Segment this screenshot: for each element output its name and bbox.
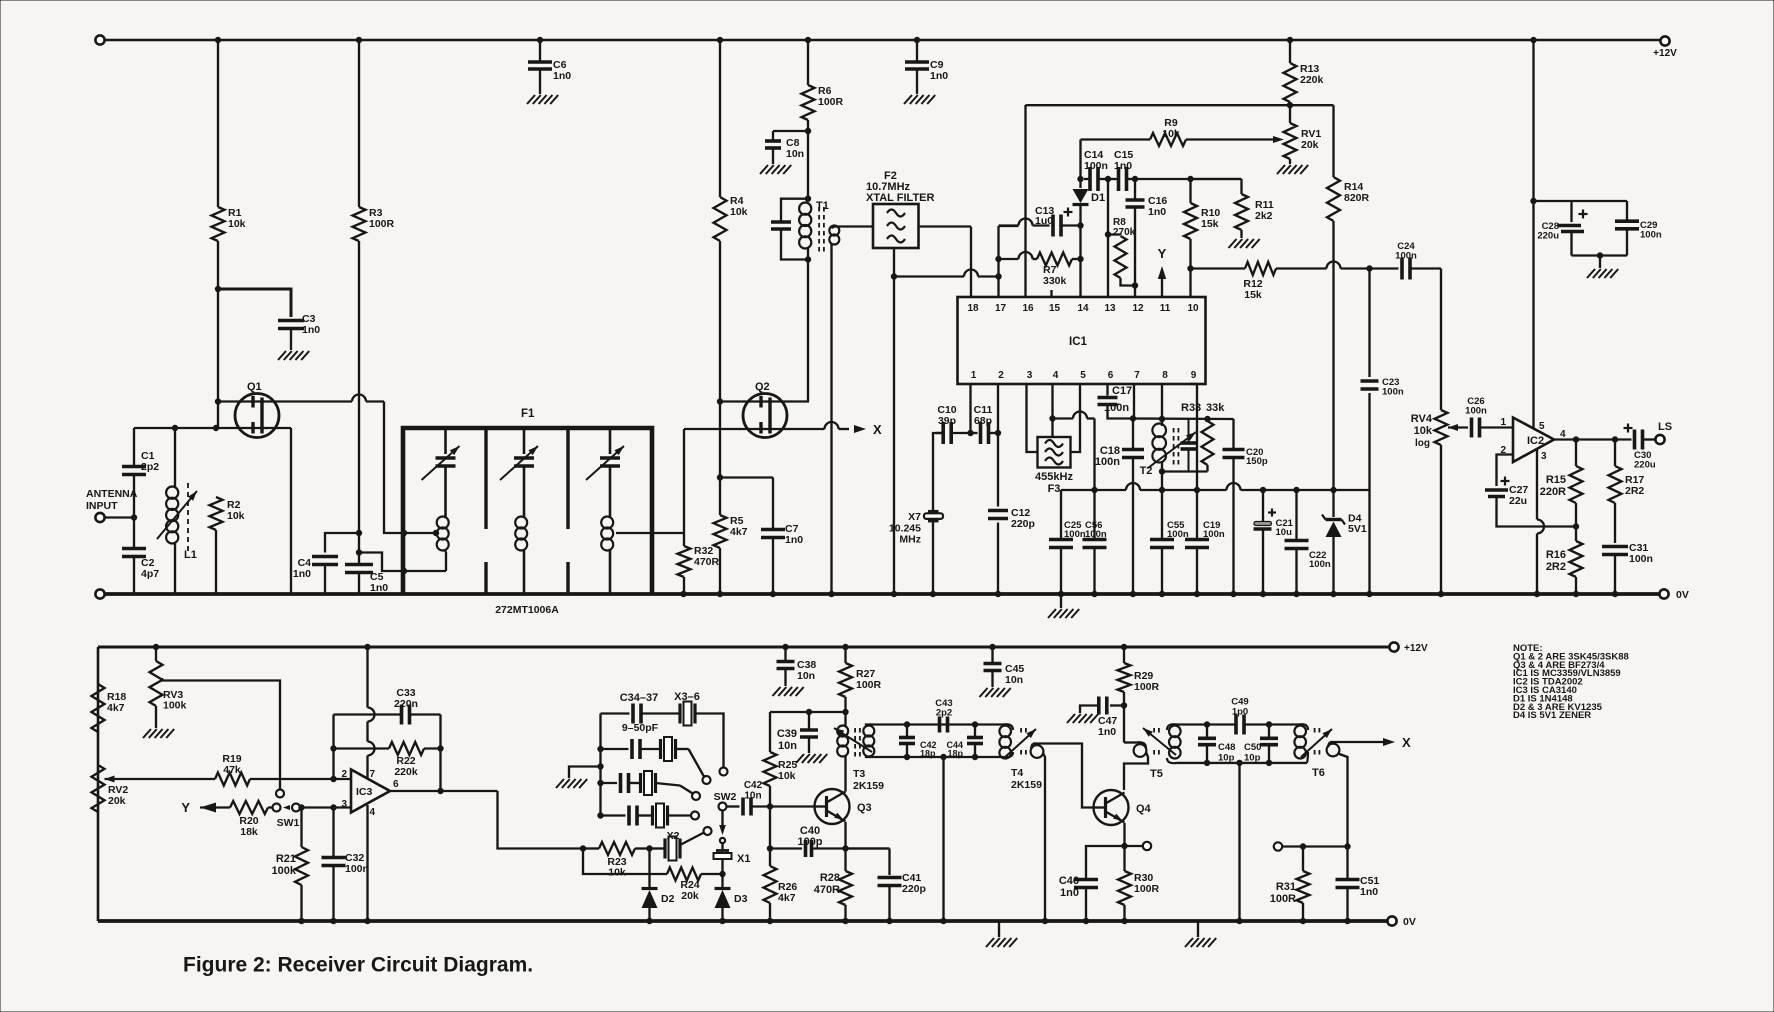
svg-text:100n: 100n <box>1640 230 1662 241</box>
potentiometer RV3 <box>155 647 157 661</box>
ground C45 <box>980 688 988 697</box>
transistor Q4 <box>1094 790 1129 825</box>
ground C38 <box>773 687 781 696</box>
svg-text:330k: 330k <box>1043 275 1067 287</box>
svg-text:0V: 0V <box>1676 589 1689 601</box>
tank capacitor C44 <box>972 721 978 727</box>
arrow L1 adjust <box>157 491 197 539</box>
resistor R11 <box>1191 178 1242 180</box>
svg-text:5V1: 5V1 <box>1348 523 1367 535</box>
wire IC2 output <box>1554 438 1632 440</box>
node D3 top <box>719 871 725 877</box>
wire F2-gnd to pin17 <box>894 275 964 277</box>
transformer T1 <box>805 196 811 202</box>
contact SW2 row1 <box>720 768 728 776</box>
svg-text:LS: LS <box>1658 421 1672 433</box>
svg-text:455kHz: 455kHz <box>1035 471 1073 483</box>
capacitor C12 <box>997 433 999 507</box>
transformer T3 primary <box>844 712 846 726</box>
partition F1 b <box>566 428 569 529</box>
svg-text:15: 15 <box>1049 303 1061 314</box>
svg-text:INPUT: INPUT <box>86 500 118 512</box>
resistor R14 <box>1332 105 1334 177</box>
wire T3 sec bottom <box>866 756 1003 757</box>
ground C6 <box>527 95 535 104</box>
svg-text:C50: C50 <box>1244 742 1261 753</box>
capacitor C33 <box>334 713 402 715</box>
wire pin16 vertical <box>1024 105 1026 297</box>
svg-text:100R: 100R <box>818 96 844 108</box>
crystal X7 <box>928 510 939 513</box>
svg-text:IC2: IC2 <box>1527 435 1544 447</box>
wire C28 C29 top <box>1534 200 1628 202</box>
wire coil return <box>359 553 446 572</box>
resistor R3 <box>358 40 360 207</box>
wire IC3 pin4 down <box>366 805 368 921</box>
svg-text:18k: 18k <box>240 826 258 838</box>
wire Q3 collector <box>844 756 846 792</box>
wire Q1 drain <box>218 400 352 402</box>
svg-text:10p: 10p <box>1218 753 1235 764</box>
svg-text:10n: 10n <box>1005 674 1023 686</box>
node R23 left <box>580 845 586 851</box>
wire T5 tank bottom <box>1177 762 1307 764</box>
wire F2 ground <box>893 248 895 594</box>
svg-text:100k: 100k <box>163 700 187 712</box>
svg-text:100n: 100n <box>1395 251 1417 262</box>
arrow T6 adjust <box>1301 729 1332 757</box>
svg-text:100n: 100n <box>1382 387 1404 398</box>
svg-text:Q1: Q1 <box>247 381 262 393</box>
svg-text:R16: R16 <box>1546 549 1566 561</box>
arrow RV4 wiper <box>1448 424 1458 431</box>
svg-text:R15: R15 <box>1546 474 1566 486</box>
resistor R32 <box>652 532 684 534</box>
wire C15 node line <box>1135 178 1242 180</box>
capacitor C23 <box>1368 269 1370 378</box>
wire pin1 vertical <box>969 384 971 433</box>
svg-text:1n0: 1n0 <box>370 582 388 594</box>
svg-text:T1: T1 <box>816 200 829 212</box>
potentiometer RV2 <box>92 765 105 812</box>
transistor Q1 <box>235 394 279 438</box>
svg-text:T5: T5 <box>1150 768 1163 780</box>
svg-text:272MT1006A: 272MT1006A <box>495 604 559 616</box>
core L1 dashed <box>187 483 189 551</box>
core T3 dashed <box>854 728 856 757</box>
svg-text:10n: 10n <box>744 791 761 802</box>
svg-text:SW2: SW2 <box>714 791 737 803</box>
svg-text:150p: 150p <box>1246 456 1268 467</box>
tick pin15 <box>1050 290 1052 297</box>
svg-text:C46: C46 <box>1059 875 1079 887</box>
svg-text:270k: 270k <box>1113 227 1136 238</box>
svg-text:100k: 100k <box>272 865 297 877</box>
wire IC3 pin3 input <box>300 806 352 808</box>
capacitor C45 <box>989 644 995 650</box>
wire feedback left <box>332 715 334 780</box>
node R5 C7 <box>717 474 723 480</box>
core T2 dashed <box>1173 428 1175 465</box>
ground 0V rail lower a <box>998 921 1000 937</box>
capacitor C38 <box>782 644 788 650</box>
contact SW1 a <box>273 804 281 812</box>
ground RV3 <box>143 729 151 738</box>
svg-text:2: 2 <box>341 769 347 780</box>
transformer T2 <box>1152 424 1166 438</box>
svg-text:2: 2 <box>998 370 1004 381</box>
svg-text:220k: 220k <box>394 766 418 778</box>
core T1 dashed <box>818 207 820 252</box>
resistor R13 <box>1289 40 1291 63</box>
resistor R12 <box>1191 267 1246 269</box>
svg-text:RV4: RV4 <box>1411 413 1433 425</box>
wire C41 branch <box>846 847 890 849</box>
resistor R5 <box>719 478 721 516</box>
partition F1 a <box>484 428 487 529</box>
wire 5V node line <box>1061 489 1126 491</box>
bank row 3 capacitor C36 <box>597 780 603 786</box>
wire T4 sec tail to 0V <box>1043 753 1045 921</box>
wire crystal bank bus <box>599 714 601 816</box>
resistor R28 <box>844 849 846 872</box>
svg-text:Y: Y <box>181 800 190 815</box>
svg-text:10k: 10k <box>608 867 626 879</box>
wire IC2 pin5 supply <box>1532 40 1534 429</box>
svg-text:4: 4 <box>370 807 376 818</box>
wire pin17 vertical <box>997 226 999 297</box>
svg-text:C42: C42 <box>744 780 763 791</box>
wire pin13 vertical <box>1107 179 1109 297</box>
capacitor C4 <box>312 555 338 559</box>
svg-text:6: 6 <box>393 779 399 790</box>
svg-text:10k: 10k <box>227 510 245 522</box>
resistor R10 <box>1189 179 1191 203</box>
svg-text:MHz: MHz <box>899 534 921 546</box>
resistor R30 <box>1123 846 1125 871</box>
resistor R15 <box>1575 440 1577 467</box>
ground C8 <box>760 165 768 174</box>
svg-text:100R: 100R <box>1270 893 1296 905</box>
svg-text:C48: C48 <box>1218 742 1235 753</box>
svg-text:4p7: 4p7 <box>141 568 159 580</box>
inductor L1 <box>174 428 176 487</box>
core T5 dashed <box>1153 728 1155 735</box>
terminal +12V <box>1660 36 1669 45</box>
svg-text:220R: 220R <box>1540 486 1566 498</box>
capacitor C16 <box>1134 179 1136 200</box>
capacitor C32 <box>332 808 334 857</box>
wire R31 node <box>1282 845 1348 847</box>
transformer T4 secondary <box>1031 745 1044 758</box>
capacitor C10 <box>936 432 944 434</box>
ground RV1 <box>1277 165 1285 174</box>
antenna input terminal <box>95 513 104 522</box>
resistor R4 <box>719 40 721 197</box>
svg-text:5: 5 <box>1080 370 1086 381</box>
wire IC3 pin2 input <box>334 778 352 780</box>
svg-text:T4: T4 <box>1011 767 1023 779</box>
transistor Q3 <box>815 789 850 824</box>
capacitor C7 <box>720 476 773 478</box>
wire R25 top to R27 <box>770 711 846 713</box>
capacitor C15 <box>1105 178 1119 180</box>
wire Q3 emitter <box>844 822 846 849</box>
ground R11 <box>1229 239 1237 248</box>
svg-text:1: 1 <box>1500 417 1506 428</box>
bank row 3 crystal X5 <box>639 773 642 793</box>
svg-text:F3: F3 <box>1048 483 1061 495</box>
bank row 2 capacitor C35 <box>597 746 603 752</box>
core T4 dashed <box>1020 728 1022 735</box>
wire T6 sec tail <box>1338 754 1348 847</box>
svg-text:2R2: 2R2 <box>1546 561 1566 573</box>
svg-text:20k: 20k <box>1301 139 1319 151</box>
resistor R23 <box>583 847 599 849</box>
capacitor C20 <box>1232 419 1234 449</box>
capacitor C25 <box>1060 490 1062 538</box>
contact SW2 row3 <box>692 792 700 800</box>
wire X output <box>1330 741 1383 743</box>
ground bank bus <box>569 767 601 779</box>
capacitor C39 <box>808 712 810 730</box>
svg-text:10k: 10k <box>228 218 246 230</box>
node C4 <box>356 530 362 536</box>
svg-text:0V: 0V <box>1403 916 1416 928</box>
svg-text:R31: R31 <box>1276 881 1296 893</box>
svg-text:XTAL FILTER: XTAL FILTER <box>866 192 934 204</box>
terminal monitor <box>1274 842 1282 850</box>
svg-text:1n0: 1n0 <box>553 70 571 82</box>
svg-text:18p: 18p <box>920 748 936 758</box>
wire T2 bottom bracket <box>1162 470 1208 472</box>
resistor R19 <box>105 778 216 780</box>
terminal 0V lower <box>1387 916 1396 925</box>
resistor R6 <box>807 40 809 85</box>
svg-text:1p0: 1p0 <box>1232 707 1248 718</box>
node antenna <box>131 514 137 520</box>
capacitor C24 <box>1400 258 1404 280</box>
svg-text:1n0: 1n0 <box>1098 726 1116 738</box>
dot D1-C13 <box>1077 222 1083 228</box>
transformer T5 tank coil <box>1169 726 1181 738</box>
svg-text:IC3: IC3 <box>356 786 373 798</box>
svg-text:1n0: 1n0 <box>293 568 311 580</box>
svg-text:100n: 100n <box>1095 456 1120 468</box>
capacitor C9 <box>916 40 918 62</box>
capacitor C6 <box>539 40 541 62</box>
svg-text:IC1: IC1 <box>1069 336 1088 348</box>
inductor T1 secondary <box>829 226 839 236</box>
wire T2 top bracket <box>1133 417 1234 420</box>
capacitor C5 <box>358 533 360 565</box>
svg-text:T6: T6 <box>1312 767 1325 779</box>
svg-text:100R: 100R <box>369 218 395 230</box>
svg-text:10n: 10n <box>778 740 797 752</box>
wire input node line <box>134 427 291 429</box>
wire C27 return to R15 R16 <box>1569 525 1576 527</box>
resistor R16 <box>1575 527 1577 542</box>
wire R24 branch <box>583 849 667 875</box>
terminal 0V <box>1659 589 1668 598</box>
capacitor C31 <box>1602 545 1628 549</box>
svg-text:2K159: 2K159 <box>1011 779 1042 791</box>
wire T3 sec top <box>866 725 871 727</box>
svg-text:100n: 100n <box>1104 402 1129 414</box>
wire Q2 gate-drain <box>720 400 809 402</box>
svg-text:X7: X7 <box>908 511 921 523</box>
svg-text:10k: 10k <box>730 206 748 218</box>
capacitor C21 polarized <box>1260 487 1266 493</box>
resistor R29 <box>1121 644 1127 650</box>
svg-text:100n: 100n <box>1629 553 1653 565</box>
wire +12V top rail <box>104 39 1661 42</box>
wire IC2 pin2 to C27 <box>1497 455 1514 487</box>
svg-text:10: 10 <box>1187 303 1199 314</box>
svg-text:100n: 100n <box>1084 160 1108 172</box>
svg-text:10k: 10k <box>1162 128 1180 140</box>
op-amp IC2 <box>1513 418 1554 463</box>
svg-text:470R: 470R <box>814 884 840 896</box>
terminal bottom-left <box>95 589 104 598</box>
svg-text:7: 7 <box>370 769 376 780</box>
wire left edge lower <box>97 647 100 921</box>
svg-text:D3: D3 <box>734 893 748 905</box>
svg-text:20k: 20k <box>108 795 126 807</box>
contact X2 <box>704 827 712 835</box>
transistor Q2 <box>743 394 787 438</box>
ground C9 <box>904 95 912 104</box>
capacitor C50 <box>1268 725 1270 738</box>
wire pin7 vertical <box>1133 384 1135 419</box>
svg-text:100n: 100n <box>1064 529 1086 540</box>
arrow T5 adjust <box>1143 728 1176 755</box>
trimmer capacitor F1 cell 3 <box>609 428 612 454</box>
svg-text:17: 17 <box>995 303 1007 314</box>
wire pin3 to F3 <box>1027 384 1038 452</box>
svg-text:10k: 10k <box>1414 425 1433 437</box>
node C5 <box>356 549 362 555</box>
svg-text:18p: 18p <box>947 748 963 758</box>
wire C3 branch <box>218 289 291 317</box>
capacitor C3 <box>278 319 304 323</box>
arrow T2 adjust <box>1148 432 1196 468</box>
wire 0V rail lower <box>98 919 1388 923</box>
bank row 1 capacitor C34 <box>601 712 630 714</box>
potentiometer RV4 <box>1440 269 1442 411</box>
bank row 4 capacitor C37 <box>597 812 603 818</box>
svg-text:D4 IS 5V1 ZENER: D4 IS 5V1 ZENER <box>1513 710 1591 721</box>
capacitor C26 <box>1470 418 1474 438</box>
node R12 R10 <box>1187 265 1193 271</box>
svg-text:12: 12 <box>1132 303 1144 314</box>
svg-text:Q3: Q3 <box>857 802 872 814</box>
svg-text:4: 4 <box>1053 370 1059 381</box>
svg-text:10n: 10n <box>797 670 815 682</box>
ground C39 <box>796 754 804 763</box>
wire pin4 node <box>1051 384 1053 419</box>
svg-text:1n0: 1n0 <box>1360 886 1378 898</box>
capacitor C14 <box>1088 167 1092 191</box>
svg-text:9–50pF: 9–50pF <box>622 722 659 734</box>
contact SW2 row2 <box>703 776 711 784</box>
capacitor C49 <box>1234 715 1238 735</box>
svg-text:15k: 15k <box>1201 218 1219 230</box>
svg-text:10k: 10k <box>778 770 796 782</box>
wire X7 branch <box>933 433 944 511</box>
node pin14 top <box>1077 176 1083 182</box>
resistor R27 <box>842 644 848 650</box>
ground C28 C29 <box>1599 256 1601 269</box>
node C28 branch <box>1530 198 1536 204</box>
contact SW2 row4 <box>691 812 699 820</box>
resistor R20 <box>200 806 230 808</box>
wire RV3 wiper to SW1 <box>161 678 163 681</box>
transformer T6 secondary <box>1327 744 1340 757</box>
svg-text:5: 5 <box>1539 421 1545 432</box>
svg-text:4k7: 4k7 <box>778 892 796 904</box>
svg-text:ANTENNA: ANTENNA <box>86 488 138 500</box>
filter F3 box <box>1038 437 1071 468</box>
node gate1 <box>215 398 221 404</box>
svg-text:220p: 220p <box>1011 518 1035 530</box>
svg-text:10n: 10n <box>786 148 804 160</box>
capacitor C18 <box>1132 419 1134 449</box>
wire pin4 to C56 <box>1053 417 1074 419</box>
trimmer capacitor F1 cell 1 <box>444 428 447 454</box>
crystal X1 <box>716 849 729 852</box>
arrow RV2 wiper <box>105 776 115 783</box>
svg-text:8: 8 <box>1162 370 1168 381</box>
svg-text:X: X <box>873 422 882 437</box>
contact SW1 b <box>292 804 300 812</box>
svg-text:1n0: 1n0 <box>785 534 803 546</box>
terminal top-left <box>95 35 104 44</box>
transformer T6 primary <box>1294 726 1306 738</box>
capacitor C40 <box>770 847 802 849</box>
svg-text:1n0: 1n0 <box>930 70 948 82</box>
capacitor C42a <box>727 805 740 807</box>
svg-text:C34–37: C34–37 <box>620 692 659 704</box>
node C23 top <box>1366 265 1372 271</box>
capacitor C55 <box>1161 490 1163 538</box>
node Q2 gate <box>717 398 723 404</box>
ground 0V rail <box>1060 594 1062 608</box>
svg-text:D1: D1 <box>1091 192 1105 204</box>
svg-text:log: log <box>1415 438 1430 449</box>
svg-text:R28: R28 <box>820 872 840 884</box>
svg-text:3: 3 <box>1541 451 1547 462</box>
svg-text:13: 13 <box>1104 303 1116 314</box>
tap F1 cell3 to R32 <box>616 532 652 534</box>
svg-text:1n0: 1n0 <box>302 324 320 336</box>
wire pin2 vertical <box>997 384 999 433</box>
capacitor C13 <box>1051 215 1055 237</box>
svg-text:100n: 100n <box>1465 406 1487 417</box>
svg-text:Figure 2: Receiver Circuit Di: Figure 2: Receiver Circuit Diagram. <box>183 954 533 977</box>
svg-text:1n0: 1n0 <box>1148 206 1166 218</box>
wire C4 branch <box>325 533 359 553</box>
svg-text:220n: 220n <box>394 698 418 710</box>
svg-text:X: X <box>1402 735 1411 750</box>
tank T3-T4 capacitor C42b <box>904 721 910 727</box>
IC IC1 box <box>958 297 1206 384</box>
node C40 line <box>767 845 773 851</box>
svg-text:100n: 100n <box>1309 559 1331 570</box>
wire C28 C29 bottom <box>1572 254 1628 256</box>
wire pin9 vertical <box>1191 383 1198 385</box>
varicap diode D3 <box>721 874 723 887</box>
